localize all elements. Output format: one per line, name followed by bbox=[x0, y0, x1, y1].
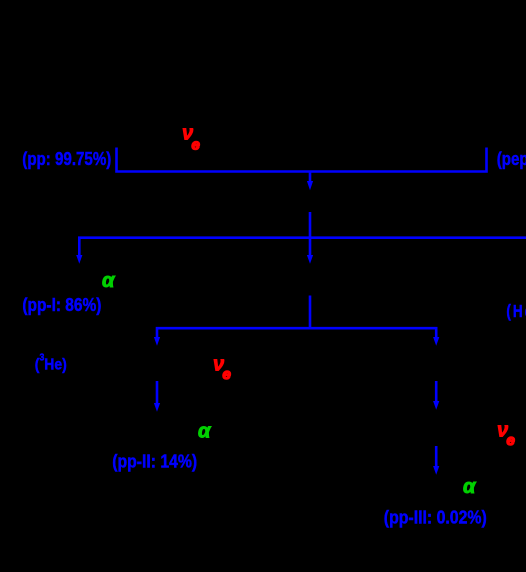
svg-text:(pp: 99.75%): (pp: 99.75%) bbox=[22, 149, 111, 169]
svg-text:(pp-III: 0.02%): (pp-III: 0.02%) bbox=[384, 507, 487, 527]
svg-text:e: e bbox=[223, 366, 231, 383]
arrow: into pp-II branch bbox=[154, 337, 160, 346]
svg-text:e: e bbox=[507, 432, 515, 449]
svg-text:α: α bbox=[102, 270, 116, 292]
neutrino symbol nu_e of B-8 decay bbox=[497, 420, 515, 450]
svg-text:e: e bbox=[192, 137, 200, 154]
svg-text:(pp-II: 14%): (pp-II: 14%) bbox=[112, 452, 197, 472]
neutrino symbol nu_e of Be-7 electron capture bbox=[213, 354, 231, 384]
svg-text:(pep: 0.25%): (pep: 0.25%) bbox=[497, 149, 526, 169]
arrow: into pp-III branch bbox=[433, 337, 439, 346]
wire: top bracket joining pp and pep branches bbox=[117, 148, 487, 172]
arrow: pp-III B-8 step bbox=[433, 381, 439, 410]
svg-text:(pp-I: 86%): (pp-I: 86%) bbox=[22, 295, 101, 315]
wire: He-3 horizontal split line bbox=[79, 238, 526, 260]
svg-text:α: α bbox=[463, 476, 477, 498]
arrow: deuterium + p to He-3 bbox=[307, 212, 313, 264]
neutrino symbol nu_e of p+p reaction bbox=[182, 123, 200, 154]
wire: stem from He-3 into second split bbox=[309, 296, 312, 330]
arrow: pp-I branch down bbox=[76, 255, 82, 264]
arrow: pp-II Li-7 step bbox=[154, 381, 160, 412]
svg-text:α: α bbox=[198, 420, 212, 442]
svg-text:(He: (He bbox=[506, 302, 526, 321]
arrow: pp-III Be-8 step bbox=[433, 446, 439, 475]
wire: second bracket splitting pp-II and pp-III bbox=[157, 328, 436, 338]
arrow: p+p to deuterium bbox=[307, 172, 313, 191]
svg-text:(3He): (3He) bbox=[35, 352, 67, 373]
